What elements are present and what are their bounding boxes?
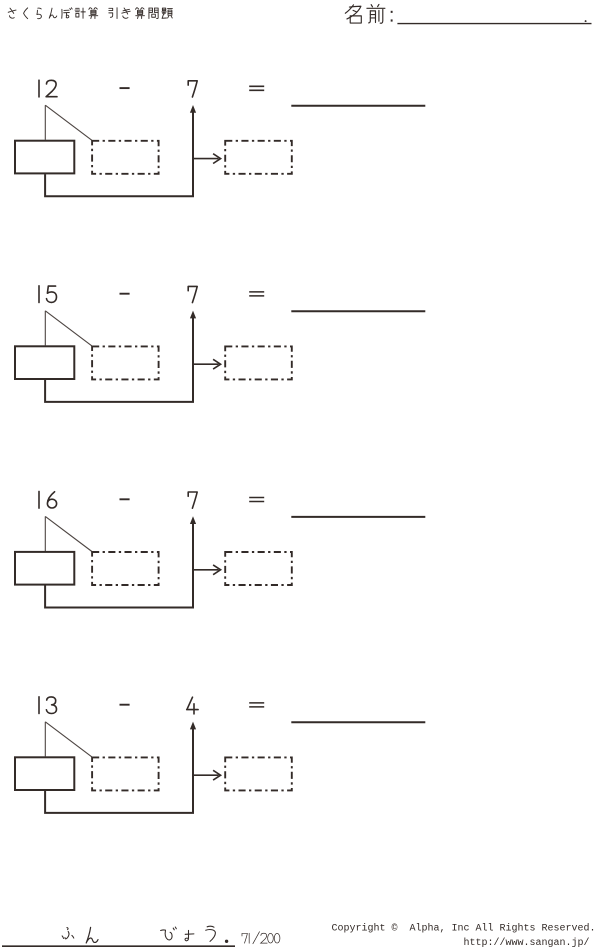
problem 3 (16-7) diagram — [15, 498, 425, 608]
minuend tens digit 1 — [38, 80, 40, 97]
footer ん — [86, 927, 98, 943]
problem 4 (13-4) diagram — [15, 703, 425, 813]
minuend tens digit 1 — [38, 697, 40, 714]
problem 1 (12-7) diagram — [15, 86, 425, 196]
footer ふ — [62, 928, 74, 939]
problem 2 (15-7) diagram — [15, 292, 425, 402]
name label 名 — [345, 5, 361, 23]
name label 前 — [367, 4, 385, 23]
svg-text:Copyright © Alpha, Inc All Ri: Copyright © Alpha, Inc All Rights Reserv… — [332, 923, 596, 935]
minuend units digit 3 — [46, 697, 56, 714]
footer び — [161, 927, 177, 940]
footer answer-time underline — [2, 945, 235, 947]
header title: さくらんぼ計算 引き算問題 — [8, 8, 172, 19]
minuend tens digit 1 — [38, 491, 40, 508]
subtrahend digit 7 — [188, 286, 197, 302]
minuend units digit 6 — [47, 492, 56, 508]
small dot above line end — [585, 20, 587, 22]
minuend units digit 2 — [46, 80, 57, 96]
page number 71/200 — [242, 932, 280, 944]
minuend tens digit 1 — [38, 286, 40, 303]
svg-text:http://www.sangan.jp/: http://www.sangan.jp/ — [464, 937, 590, 949]
name underline — [397, 23, 591, 25]
subtrahend digit 7 — [188, 492, 197, 508]
footer period — [225, 940, 228, 943]
minuend units digit 5 — [47, 286, 57, 302]
footer ょ — [185, 930, 194, 940]
footer う — [206, 926, 216, 941]
name colon — [391, 11, 393, 22]
subtrahend digit 4 — [187, 697, 198, 714]
subtrahend digit 7 — [188, 81, 197, 97]
